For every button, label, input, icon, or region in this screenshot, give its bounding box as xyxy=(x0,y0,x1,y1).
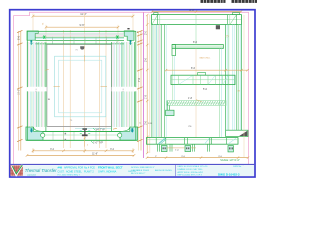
corner arrow bottom-left xyxy=(30,128,33,132)
rv pad 3 xyxy=(228,146,233,152)
dim ext line left a xyxy=(18,31,20,151)
rv shelf1 xyxy=(172,45,224,56)
centre anchor symbol xyxy=(80,128,90,136)
svg-text:5'-6: 5'-6 xyxy=(18,35,21,40)
rv top bar inner lines xyxy=(152,19,241,21)
band inner boundary xyxy=(46,44,112,132)
svg-text:8'-6: 8'-6 xyxy=(193,41,198,44)
inner opening outline xyxy=(47,45,111,127)
liner tick right xyxy=(101,86,108,88)
corner fillet bottom-right xyxy=(120,127,130,131)
right wall layer lines xyxy=(111,42,134,127)
rv right column layers xyxy=(226,25,242,131)
rv pad 2 bolts xyxy=(186,147,187,149)
rv shelf2 notch xyxy=(198,73,206,76)
bottom band line 1 xyxy=(75,127,111,129)
cropped heading text right xyxy=(232,0,258,3)
svg-text:Thermal Transfer: Thermal Transfer xyxy=(25,168,57,173)
rv hatch leader xyxy=(196,100,202,102)
plot margin line xyxy=(14,12,249,164)
rv top bar braces xyxy=(152,15,236,24)
rv base plate xyxy=(147,138,239,145)
bottom band line 2 xyxy=(43,131,120,133)
bottom opening edge xyxy=(47,125,111,127)
rv mid dim xyxy=(165,69,249,71)
left band gap xyxy=(27,87,47,91)
rv wall line inner left xyxy=(164,25,166,138)
rv plate teal wedge xyxy=(159,138,166,144)
top dim line 1 xyxy=(32,14,135,31)
rv top bar tab right xyxy=(233,13,240,15)
rv leg pair 1 xyxy=(158,144,160,151)
title block divider xyxy=(175,164,177,176)
rv right corbel xyxy=(226,130,248,136)
rv dim ext vertical xyxy=(149,15,151,154)
sheet background xyxy=(0,0,265,187)
svg-text:DWG D-10452-3: DWG D-10452-3 xyxy=(218,173,240,177)
svg-text:P.O. 4452 ITEM 2 REQ 7: P.O. 4452 ITEM 2 REQ 7 xyxy=(58,175,81,177)
svg-text:BAR DRILL: BAR DRILL xyxy=(200,57,212,60)
inner liner rect inner xyxy=(59,60,102,113)
company logo xyxy=(10,165,23,176)
rv leg pair 2 xyxy=(170,144,172,151)
corner arrow top-right xyxy=(129,40,132,45)
svg-text:8'-0": 8'-0" xyxy=(190,9,195,12)
svg-text:8'-6: 8'-6 xyxy=(191,67,196,70)
band outer boundary xyxy=(27,31,136,140)
marker star right xyxy=(116,35,120,38)
svg-text:10'-3": 10'-3" xyxy=(18,89,21,95)
bottom band joint ticks xyxy=(53,132,107,140)
inner liner rect outer xyxy=(55,56,106,117)
rv pad 2 xyxy=(185,146,191,152)
svg-text:DWG No.: DWG No. xyxy=(233,166,242,168)
rv hatched beam xyxy=(167,101,226,106)
rv left bracket pad xyxy=(166,110,174,115)
svg-text:No.4 FCE: No.4 FCE xyxy=(84,166,95,169)
rv shelf2 braces xyxy=(179,76,228,85)
svg-text:BLOCK INS 2": BLOCK INS 2" xyxy=(131,173,145,175)
dim ticks right xyxy=(137,30,143,141)
svg-text:5'-0: 5'-0 xyxy=(203,88,208,91)
dim ext line right b xyxy=(140,31,142,151)
svg-text:CASTABLE 2500F: CASTABLE 2500F xyxy=(131,169,150,172)
ext vertical d xyxy=(105,30,107,148)
right margin ext xyxy=(243,15,245,157)
rv top bar xyxy=(152,15,242,25)
inner left tick xyxy=(45,69,49,70)
rv shelf2 inner xyxy=(171,75,235,84)
dim ext line left b xyxy=(20,31,22,151)
svg-text:(7): (7) xyxy=(226,36,229,38)
small squares bottom xyxy=(65,133,67,141)
title fields right xyxy=(178,165,243,176)
svg-text:corporation: corporation xyxy=(27,174,36,177)
typ note lower xyxy=(91,141,103,144)
typ note upper xyxy=(93,128,105,132)
corner block top-left xyxy=(27,31,38,40)
right band gap xyxy=(111,87,137,91)
corner ticks bottom-right xyxy=(113,128,117,129)
rv leg pair 4 xyxy=(208,144,210,151)
svg-text:APPR W.F.H. JOB No 4452: APPR W.F.H. JOB No 4452 xyxy=(178,171,204,174)
rv shelf2 xyxy=(171,75,235,84)
rv pad 1 bolts xyxy=(163,147,164,149)
svg-text:11'-8": 11'-8" xyxy=(92,154,98,156)
liner tick top xyxy=(84,55,86,62)
corner block top-right xyxy=(124,31,134,41)
liner tick left xyxy=(54,86,60,88)
corner block bottom-right xyxy=(120,127,138,140)
svg-text:ACME STEEL: ACME STEEL xyxy=(66,171,82,174)
centre weld symbol xyxy=(80,46,84,49)
left wall layer lines xyxy=(27,42,46,127)
corner arrow bottom-right xyxy=(131,128,134,132)
svg-text:9'-6": 9'-6" xyxy=(80,24,85,27)
rv dim line vertical xyxy=(146,14,149,154)
title block top rule xyxy=(10,163,255,165)
top wall layer lines xyxy=(36,31,125,44)
bottom band line 3 xyxy=(26,139,138,141)
centreline left view xyxy=(84,13,86,153)
rv top dim line xyxy=(151,10,242,12)
svg-text:1'-8: 1'-8 xyxy=(188,97,193,100)
marker star left xyxy=(42,35,46,38)
dim ext line right a xyxy=(138,31,140,151)
rv top bar dividers xyxy=(158,15,237,25)
svg-text:FRONT WALL SECT: FRONT WALL SECT xyxy=(98,165,123,169)
rv pad 1 xyxy=(161,146,167,152)
rv corbel triangle xyxy=(239,131,247,136)
title fields middle xyxy=(58,165,173,176)
corner fillet bottom-left xyxy=(34,127,44,131)
top dim line 2 xyxy=(45,25,119,43)
rv left bracket xyxy=(167,101,169,112)
rv top bar tab left xyxy=(154,13,158,15)
rv leg pair 3 xyxy=(193,144,195,151)
svg-text:PLANT 2: PLANT 2 xyxy=(84,171,94,174)
cropped heading text left xyxy=(201,0,226,3)
corner block bottom-left xyxy=(26,127,43,140)
rv left column layers xyxy=(152,25,161,138)
svg-text:#49: #49 xyxy=(58,165,63,169)
dim ticks left xyxy=(17,30,23,141)
fold line xyxy=(143,13,145,159)
svg-text:DATE 10-12-81 SCALE 1/2"=1'0: DATE 10-12-81 SCALE 1/2"=1'0 xyxy=(178,165,209,168)
svg-text:ANCHOR 304SS: ANCHOR 304SS xyxy=(155,169,172,172)
ext vertical c xyxy=(98,30,100,148)
svg-text:11'-0": 11'-0" xyxy=(80,12,86,16)
rv pad dim line xyxy=(167,147,196,149)
svg-text:3/4" TYP: 3/4" TYP xyxy=(95,129,105,132)
svg-text:NOTES: FIRE BRICK 9": NOTES: FIRE BRICK 9" xyxy=(131,167,155,169)
centre anchor leader xyxy=(84,136,89,146)
rv centre hanger line xyxy=(195,25,197,45)
svg-text:7'-9: 7'-9 xyxy=(138,77,141,82)
anchor circle right xyxy=(118,133,122,137)
corner dim mark top-right xyxy=(127,28,129,29)
svg-text:APPROVAL FOR: APPROVAL FOR xyxy=(64,166,83,169)
svg-text:CUST.: CUST. xyxy=(58,171,65,174)
ext vertical a xyxy=(63,30,65,148)
svg-text:SCALE: 1/2"=1'-0": SCALE: 1/2"=1'-0" xyxy=(220,159,240,162)
bottom band line 4 xyxy=(43,134,120,136)
drawing sheet frame xyxy=(10,10,255,177)
title block tint xyxy=(11,165,255,176)
rv bottom dim xyxy=(146,156,249,158)
ext vertical b xyxy=(69,30,71,148)
corner arrow top-left xyxy=(30,40,33,45)
rv base plate inner xyxy=(147,138,239,145)
rv pad 3 bolts xyxy=(229,147,233,149)
svg-text:REF D-10452 SHT 2 OF 3: REF D-10452 SHT 2 OF 3 xyxy=(178,175,203,177)
rv centre ext line xyxy=(195,49,197,138)
bottom dim line 2 xyxy=(26,154,136,157)
bottom dim line 1 xyxy=(32,148,135,153)
rv shelf1 hanger lines xyxy=(173,56,175,101)
rv interior wall right xyxy=(220,49,222,138)
anchor circle left xyxy=(41,133,45,137)
rv section flag xyxy=(216,25,220,29)
svg-text:1'-0" TYP: 1'-0" TYP xyxy=(93,141,103,144)
svg-text:DRAWN J.R.W. CHK T.M.L.: DRAWN J.R.W. CHK T.M.L. xyxy=(178,168,204,171)
svg-text:GARY, INDIANA: GARY, INDIANA xyxy=(98,171,117,174)
